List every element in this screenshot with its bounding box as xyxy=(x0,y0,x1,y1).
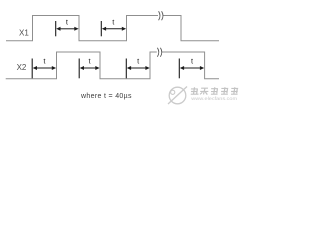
X1 dimension arrow 2 xyxy=(102,27,126,31)
svg-text:t: t xyxy=(112,18,115,27)
svg-text:t: t xyxy=(66,18,69,27)
X2 tick mark 4 xyxy=(178,59,180,79)
svg-text:X2: X2 xyxy=(17,63,27,72)
svg-text:t: t xyxy=(89,57,92,66)
X2 break symbol xyxy=(157,48,161,57)
watermark logo circle xyxy=(168,87,187,105)
svg-text:t: t xyxy=(137,57,140,66)
X1 dimension arrow 1 xyxy=(56,27,78,31)
X2 tick mark 1 xyxy=(31,59,33,79)
X2 tick mark 3 xyxy=(125,59,127,79)
X1 break symbol xyxy=(159,11,163,20)
X2 waveform trace xyxy=(6,52,219,79)
X2 dimension arrow 3 xyxy=(127,66,150,70)
watermark CJK text xyxy=(190,87,239,95)
X2 tick mark 2 xyxy=(78,59,80,79)
svg-text:X1: X1 xyxy=(19,29,29,38)
X2 dimension arrow 2 xyxy=(80,66,100,70)
X1 tick mark 2 xyxy=(100,21,102,36)
svg-text:where t = 40µs: where t = 40µs xyxy=(80,93,132,100)
X1 waveform trace xyxy=(6,16,219,41)
svg-text:www.elecfans.com: www.elecfans.com xyxy=(191,96,237,102)
X2 dimension arrow 4 xyxy=(180,66,204,70)
svg-text:t: t xyxy=(191,57,194,66)
svg-text:t: t xyxy=(43,57,46,66)
X2 dimension arrow 1 xyxy=(33,66,56,70)
X1 tick mark 1 xyxy=(55,21,57,36)
